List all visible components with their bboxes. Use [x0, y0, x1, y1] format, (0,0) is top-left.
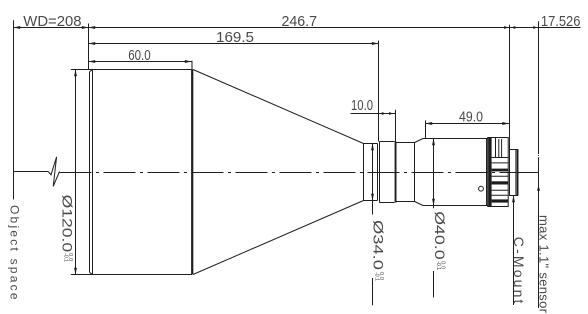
svg-text:-0.1: -0.1 [63, 253, 69, 262]
svg-text:Ø34.0: Ø34.0 [370, 220, 385, 270]
extension line 10.0 right [395, 110, 397, 142]
svg-text:246.7: 246.7 [282, 14, 318, 30]
extension line flange [509, 25, 511, 150]
svg-text:17.526: 17.526 [541, 14, 581, 30]
tube A Ø34 [364, 144, 378, 201]
label Ø40.0 0/-0.1 [432, 211, 447, 270]
object space plane line [13, 20, 15, 199]
label Ø120.0 0/-0.1 [60, 195, 75, 263]
chamfer to Ø40 barrel [415, 139, 424, 206]
centerline left segment [14, 171, 49, 173]
svg-text:Ø40.0: Ø40.0 [432, 211, 447, 259]
svg-text:WD=208: WD=208 [23, 14, 81, 30]
tube C (10.0 ring) [380, 142, 397, 203]
svg-text:max 1.1" sensor: max 1.1" sensor [537, 215, 552, 314]
sensor plane line [537, 21, 540, 308]
dimension 17.526 [510, 26, 581, 29]
svg-text:C-Mount: C-Mount [511, 237, 527, 304]
svg-text:Ø120.0: Ø120.0 [60, 195, 75, 253]
knurled lock ring [488, 138, 509, 207]
dimension Ø40 vertical [432, 139, 435, 298]
cone section [193, 70, 364, 275]
svg-text:60.0: 60.0 [128, 48, 151, 64]
lens front cylinder Ø120 [71, 70, 194, 275]
centerline solid segment to sensor plane [518, 172, 539, 174]
extension line cylinder rear [191, 61, 193, 70]
dimension Ø120 vertical [74, 70, 77, 275]
dimension WD=208 [14, 26, 89, 29]
dimension Ø34 vertical [371, 144, 374, 306]
C-mount thread [510, 150, 518, 196]
extension line 169.5 / 10.0 left [378, 41, 380, 142]
break symbol (compressed WD) [48, 157, 59, 187]
svg-text:10.0: 10.0 [351, 98, 373, 114]
Ø40 barrel [423, 139, 488, 206]
dimension 246.7 [89, 26, 510, 29]
dimension 10.0 [351, 112, 396, 115]
tube D [397, 143, 415, 202]
set screw [479, 186, 484, 191]
extension line 49.0 left [425, 120, 427, 138]
extension line front face [88, 24, 90, 70]
dimension 169.5 [89, 42, 379, 45]
C-Mount leader [512, 196, 515, 306]
label Ø34.0 0/-0.1 [370, 220, 385, 281]
centerline dash-dot axis [60, 172, 518, 174]
svg-text:49.0: 49.0 [459, 109, 483, 125]
dimension 60.0 [89, 60, 192, 63]
svg-text:Object space: Object space [8, 205, 22, 300]
svg-text:169.5: 169.5 [216, 30, 254, 46]
dimension 49.0 [426, 122, 510, 125]
svg-text:-0.1: -0.1 [373, 272, 379, 281]
svg-text:-0.1: -0.1 [435, 261, 441, 270]
